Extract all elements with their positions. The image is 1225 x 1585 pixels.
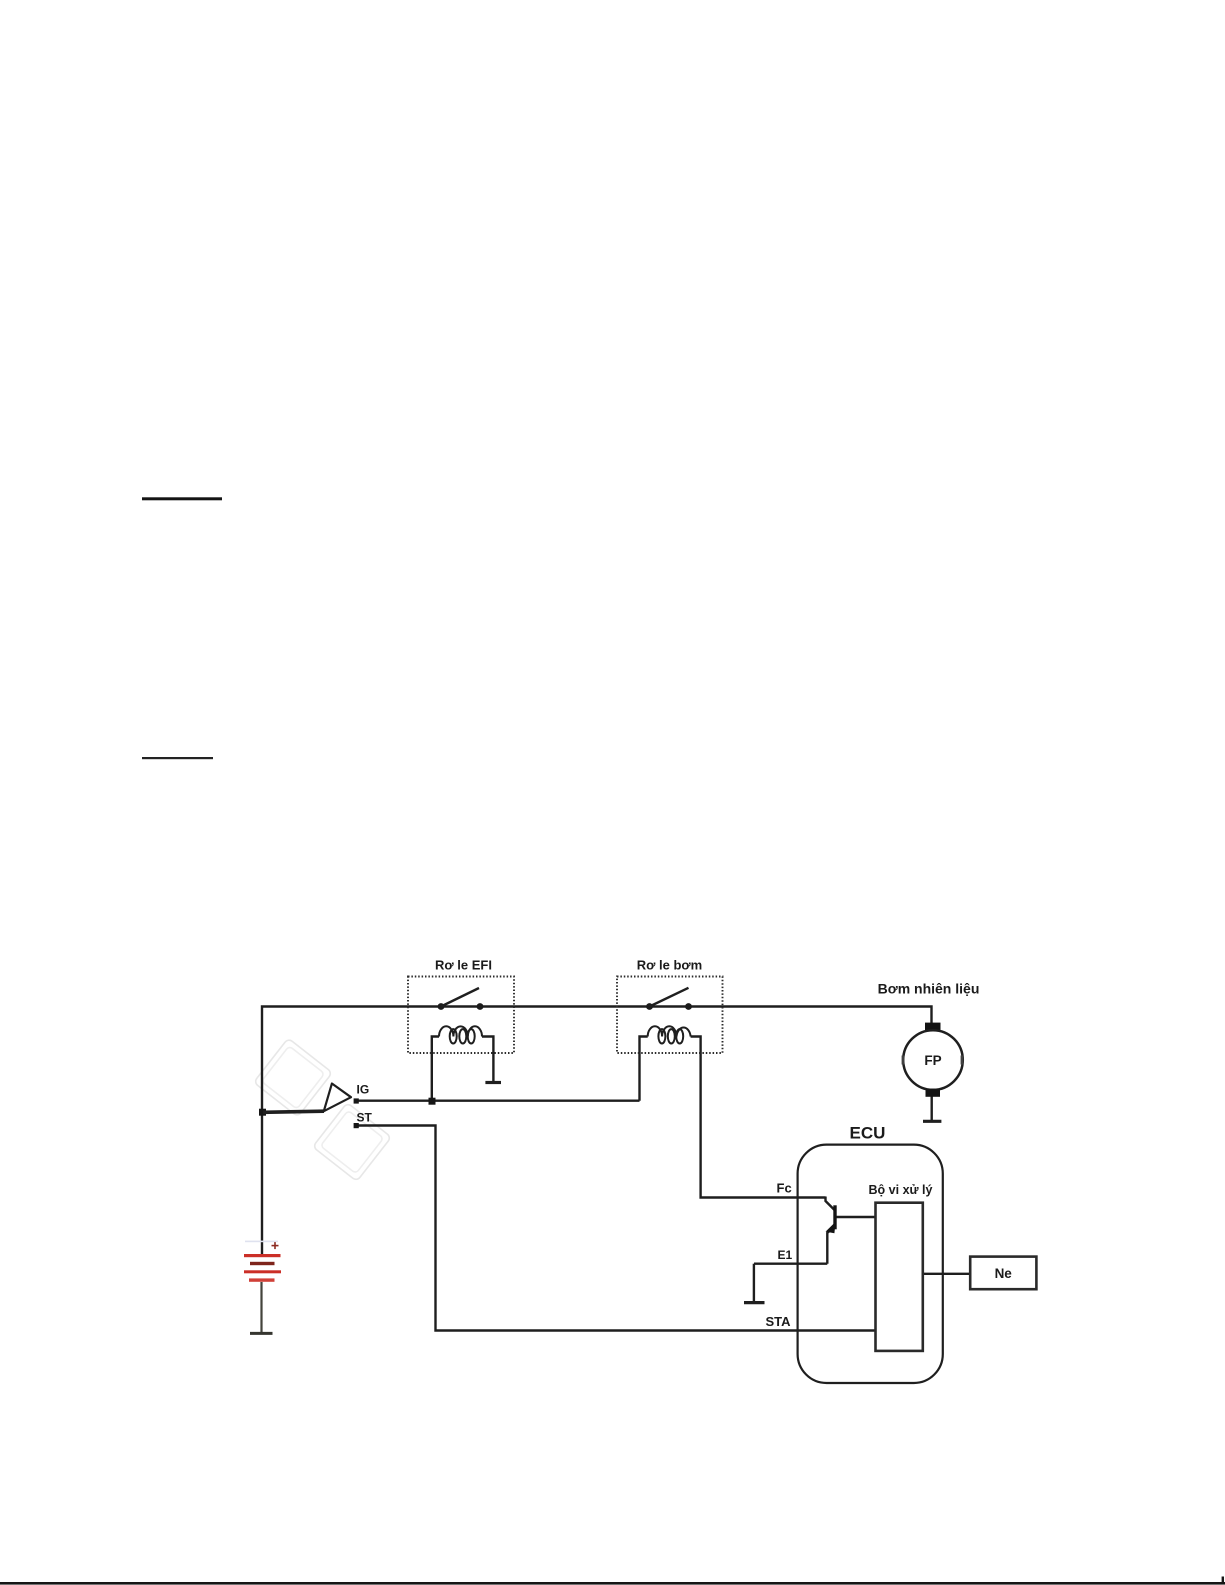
svg-text:FP: FP — [924, 1053, 941, 1068]
svg-text:Ne: Ne — [995, 1266, 1013, 1281]
svg-text:ST: ST — [357, 1110, 373, 1124]
svg-text:STA: STA — [766, 1314, 792, 1329]
svg-text:Bơm nhiên liệu: Bơm nhiên liệu — [878, 981, 980, 997]
svg-text:Rơ le bơm: Rơ le bơm — [637, 957, 702, 972]
svg-text:IG: IG — [357, 1082, 370, 1096]
svg-text:Fc: Fc — [777, 1180, 792, 1195]
svg-text:Rơ le EFI: Rơ le EFI — [435, 957, 492, 972]
svg-text:ECU: ECU — [850, 1124, 886, 1143]
svg-text:Bộ vi xử lý: Bộ vi xử lý — [869, 1183, 933, 1197]
svg-text:E1: E1 — [778, 1248, 793, 1262]
